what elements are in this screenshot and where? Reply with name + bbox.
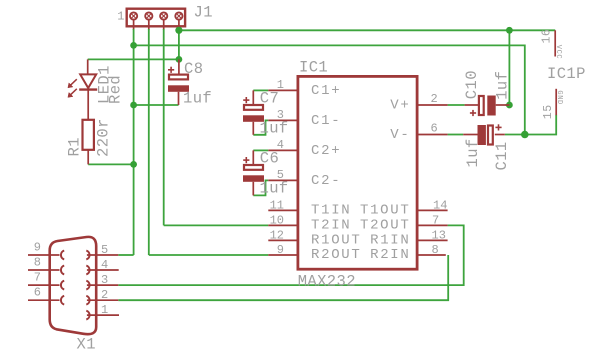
- svg-text:7: 7: [432, 213, 439, 227]
- svg-text:R1OUT: R1OUT: [311, 232, 362, 248]
- X1 pin 5: [86, 243, 118, 259]
- wire GND column from J1 pin1 down to X1 pin5: [133, 29, 135, 255]
- svg-text:C2+: C2+: [311, 143, 341, 159]
- svg-text:J1: J1: [194, 4, 213, 22]
- svg-text:R1: R1: [66, 137, 84, 156]
- svg-text:1: 1: [101, 303, 108, 317]
- IC1 pin 6 V-: [390, 121, 447, 143]
- svg-text:3: 3: [277, 108, 284, 122]
- LED LED1: [79, 59, 97, 119]
- wire C7 bottom bend: [253, 120, 268, 134]
- svg-text:1uf: 1uf: [494, 71, 512, 100]
- svg-text:11: 11: [270, 198, 284, 212]
- IC1 pin 5 C2-: [268, 168, 341, 189]
- wire R2OUT row: [149, 254, 268, 256]
- svg-text:9: 9: [277, 243, 284, 257]
- svg-text:1uf: 1uf: [464, 138, 482, 167]
- wire C10 right to junction: [506, 104, 510, 106]
- capacitor C11: [463, 125, 505, 145]
- svg-text:T1OUT: T1OUT: [360, 202, 411, 218]
- J1 pin circle 3: [160, 12, 167, 19]
- capacitor C8: [168, 59, 189, 105]
- svg-text:8: 8: [432, 243, 439, 257]
- connector J1 body: [127, 9, 185, 27]
- IC1 pin 9 R2OUT: [268, 243, 361, 263]
- svg-text:10: 10: [270, 213, 284, 227]
- svg-text:6: 6: [431, 121, 438, 135]
- svg-text:1uf: 1uf: [260, 179, 289, 197]
- wire GND to C8 bottom: [134, 104, 179, 106]
- wire V+ to C10: [448, 104, 465, 106]
- IC1 pin 2 V+: [390, 92, 447, 114]
- IC1 pin 14 T1OUT: [360, 198, 448, 218]
- wire column J1 pin4 VCC down to C8: [178, 29, 180, 59]
- X1 pin 6: [28, 286, 64, 305]
- junction at C10 right: [506, 102, 513, 109]
- J1 pin circle 1: [130, 12, 137, 19]
- wire LED anode to VCC column: [88, 58, 179, 60]
- junction at GND rail / J1 pin1: [130, 42, 137, 49]
- svg-text:T1IN: T1IN: [311, 202, 351, 218]
- junction at R1 bottom row: [130, 161, 137, 168]
- X1 pin 7: [28, 271, 64, 290]
- IC1 pin 12 R1OUT: [268, 228, 361, 248]
- svg-text:GND: GND: [555, 90, 563, 104]
- svg-text:C7: C7: [260, 89, 279, 107]
- svg-text:1: 1: [117, 10, 124, 24]
- IC1 pin 13 R1IN: [370, 228, 448, 248]
- svg-text:T2IN: T2IN: [311, 217, 351, 233]
- wire GND junction to pin15: [525, 115, 556, 135]
- C11 plus mark: [495, 124, 501, 130]
- C8 plus mark: [168, 67, 174, 73]
- X1 pin 8: [28, 256, 64, 275]
- svg-text:C1+: C1+: [311, 83, 341, 99]
- svg-text:6: 6: [34, 286, 41, 300]
- svg-text:R2OUT: R2OUT: [311, 247, 362, 263]
- IC1 pin 3 C1-: [268, 108, 341, 129]
- svg-text:V-: V-: [390, 127, 410, 143]
- svg-text:MAX232: MAX232: [298, 272, 356, 290]
- svg-text:Red: Red: [106, 75, 124, 104]
- wire VCC to C10 branch: [508, 30, 510, 105]
- svg-text:C2-: C2-: [311, 173, 341, 189]
- resistor R1: [83, 120, 94, 165]
- wire R2IN to X1 pin2: [118, 255, 448, 300]
- svg-text:1uf: 1uf: [183, 90, 212, 108]
- junction at VCC rail / J1 pin4: [175, 27, 182, 34]
- op-amp IC1 MAX232 box: [298, 76, 417, 269]
- svg-text:4: 4: [277, 138, 284, 152]
- wire column J1 pin2 to R2OUT row: [148, 29, 150, 255]
- X1 pin 4: [86, 258, 118, 274]
- C10 plus mark: [470, 110, 476, 116]
- LED1 emission arrows: [68, 79, 77, 97]
- svg-text:8: 8: [34, 256, 41, 270]
- svg-text:4: 4: [101, 258, 108, 272]
- wire C7 top bend: [253, 89, 268, 91]
- J1 pin stubs: [134, 20, 179, 30]
- C6 plus mark: [243, 157, 249, 163]
- svg-text:VCC: VCC: [554, 45, 562, 59]
- C7 plus mark: [243, 97, 249, 103]
- junction at C8 bottom row: [130, 102, 137, 109]
- IC1 pin 7 T2OUT: [360, 213, 448, 233]
- IC1 pin 4 C2+: [268, 138, 341, 159]
- svg-text:1uf: 1uf: [260, 119, 289, 137]
- svg-text:5: 5: [277, 168, 284, 182]
- wire column J1 pin3 to T2IN row: [163, 29, 165, 225]
- X1 pin 1: [86, 303, 119, 319]
- svg-text:R1IN: R1IN: [370, 232, 410, 248]
- IC1 pin 8 R2IN: [370, 243, 446, 263]
- wire C11 right to GND junction: [505, 134, 525, 136]
- X1 pin 3: [86, 273, 118, 289]
- J1 pin circle 2: [145, 12, 152, 19]
- wire GND rail: [134, 45, 525, 134]
- junction at VCC rail / C10 branch: [506, 27, 513, 34]
- capacitor C7: [243, 90, 264, 134]
- junction at LED wire / C8 top: [176, 56, 183, 63]
- power pin 15 GND of IC1P: [542, 89, 563, 119]
- svg-text:C6: C6: [260, 149, 279, 167]
- wire T2IN row: [164, 224, 269, 226]
- svg-text:C10: C10: [463, 70, 481, 99]
- capacitor C10: [465, 96, 510, 116]
- svg-text:15: 15: [542, 104, 555, 119]
- svg-text:12: 12: [270, 228, 284, 242]
- junction at C11 / GND: [521, 131, 529, 139]
- wire T2OUT to X1 pin3: [118, 225, 463, 285]
- wire V- to C11: [448, 134, 464, 136]
- svg-text:1: 1: [277, 78, 284, 92]
- svg-text:7: 7: [34, 271, 41, 285]
- power pin 16 VCC of IC1P: [541, 29, 562, 60]
- svg-text:14: 14: [433, 198, 447, 212]
- wire VCC rail top: [179, 29, 555, 31]
- svg-text:C1-: C1-: [311, 113, 341, 129]
- svg-text:3: 3: [101, 273, 108, 287]
- connector X1 shell: [50, 237, 96, 334]
- svg-text:IC1: IC1: [299, 59, 328, 77]
- capacitor C6: [243, 150, 264, 195]
- svg-text:13: 13: [432, 228, 446, 242]
- svg-text:IC1P: IC1P: [547, 65, 586, 83]
- svg-text:X1: X1: [77, 336, 96, 354]
- wire C6 bottom bend: [253, 180, 268, 195]
- IC1 pin 10 T2IN: [268, 213, 351, 233]
- wire X1 pin5 to GND column: [118, 254, 133, 256]
- J1 pin circle 4: [175, 12, 182, 19]
- svg-text:9: 9: [34, 241, 41, 255]
- X1 pin 9: [28, 241, 64, 260]
- svg-text:C8: C8: [184, 60, 203, 78]
- svg-text:V+: V+: [390, 98, 410, 114]
- svg-text:T2OUT: T2OUT: [360, 217, 411, 233]
- svg-text:5: 5: [101, 243, 108, 257]
- IC1 pin 1 C1+: [268, 78, 341, 99]
- X1 pin 2: [86, 288, 118, 304]
- svg-text:220r: 220r: [95, 118, 113, 157]
- wire C6 top bend: [253, 149, 268, 151]
- svg-text:C11: C11: [493, 141, 511, 170]
- svg-text:R2IN: R2IN: [370, 247, 410, 263]
- svg-text:2: 2: [101, 288, 108, 302]
- wire R1 bottom to GND column: [88, 163, 133, 165]
- svg-text:16: 16: [541, 29, 554, 44]
- IC1 pin 11 T1IN: [268, 198, 351, 218]
- svg-text:2: 2: [431, 92, 438, 106]
